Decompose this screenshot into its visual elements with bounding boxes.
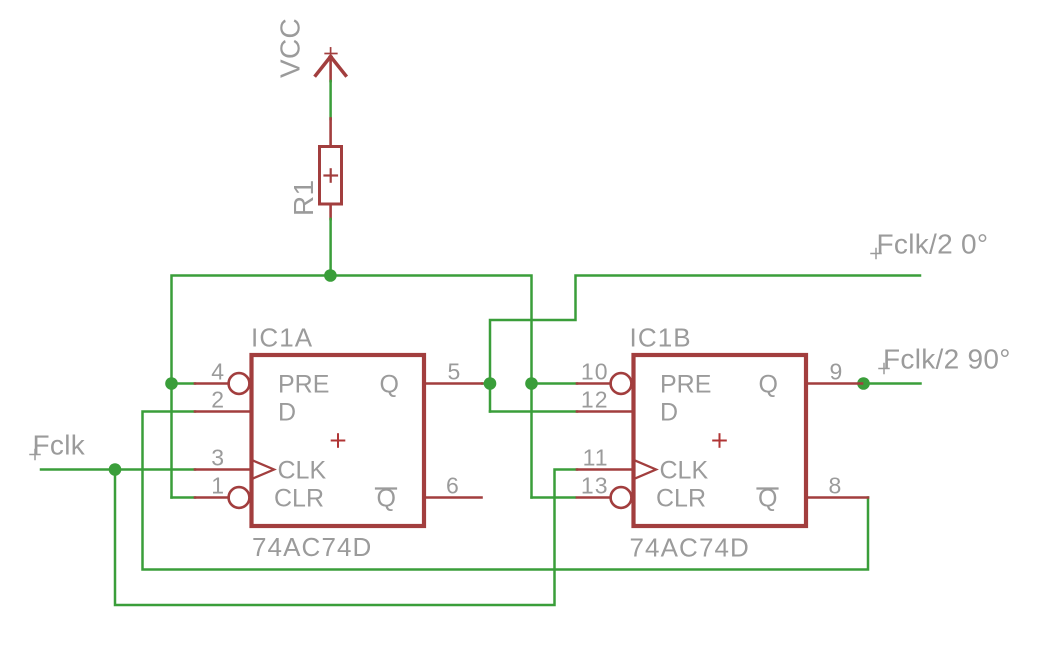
svg-text:PRE: PRE xyxy=(278,371,329,399)
svg-text:Q: Q xyxy=(759,371,778,399)
svg-text:Fclk/2 0°: Fclk/2 0° xyxy=(877,229,989,260)
origin cross IC1A xyxy=(332,434,345,447)
svg-text:11: 11 xyxy=(583,445,609,471)
svg-text:D: D xyxy=(660,399,678,427)
svg-text:13: 13 xyxy=(581,473,609,499)
pin 1 CLR of IC1A (inverting bubble) xyxy=(195,496,229,499)
junction rail-R1 xyxy=(324,269,337,282)
svg-text:4: 4 xyxy=(211,359,225,385)
junction Fclk xyxy=(109,463,122,476)
svg-text:CLK: CLK xyxy=(278,457,327,485)
wire NQ2 feedback to D1 xyxy=(143,412,869,570)
wire rail to pin1 xyxy=(172,496,196,499)
svg-text:IC1A: IC1A xyxy=(251,323,313,353)
wire rail to pin10 xyxy=(532,382,578,385)
svg-text:CLK: CLK xyxy=(660,457,709,485)
wire rail to pin13 xyxy=(532,496,576,499)
svg-text:R1: R1 xyxy=(288,180,319,216)
wire VCC to R1 xyxy=(329,81,332,119)
svg-text:CLR: CLR xyxy=(274,485,324,513)
IC flip-flop IC1B body xyxy=(634,355,807,526)
svg-text:12: 12 xyxy=(581,387,609,413)
svg-text:2: 2 xyxy=(211,387,225,413)
svg-text:6: 6 xyxy=(446,473,459,499)
wire Q2 output 90deg xyxy=(862,382,921,385)
pin 2 D of IC1A xyxy=(195,410,252,413)
pin 13 CLR of IC1B (inverting bubble) xyxy=(577,496,611,499)
overline of Qbar IC1B xyxy=(758,487,778,489)
pin 12 D of IC1B xyxy=(577,410,634,413)
pin 8 Qbar of IC1B xyxy=(806,496,868,499)
svg-text:Q: Q xyxy=(380,371,399,399)
junction Q2 xyxy=(857,377,870,390)
svg-text:8: 8 xyxy=(829,473,842,499)
pin 5 Q of IC1A xyxy=(424,382,482,385)
pin 3 CLK of IC1A (clock wedge) xyxy=(195,468,252,471)
supply symbol VCC xyxy=(316,48,346,81)
svg-text:CLR: CLR xyxy=(656,485,706,513)
svg-text:Fclk: Fclk xyxy=(33,430,86,461)
IC flip-flop IC1A body xyxy=(252,355,425,526)
svg-text:10: 10 xyxy=(581,359,609,385)
svg-text:1: 1 xyxy=(211,473,225,499)
pin 9 Q of IC1B xyxy=(806,382,862,385)
wire Q1 node to D2 and 0deg out xyxy=(482,382,490,385)
svg-text:IC1B: IC1B xyxy=(630,323,692,353)
svg-text:5: 5 xyxy=(448,359,461,385)
pin 6 Qbar of IC1A xyxy=(424,496,482,499)
pin 11 CLK of IC1B (clock wedge) xyxy=(577,468,634,471)
wire Q1 to pin12 xyxy=(490,410,577,413)
junction rail-pin4 xyxy=(165,377,178,390)
svg-text:74AC74D: 74AC74D xyxy=(630,533,750,563)
wire R1 to rail xyxy=(329,219,332,276)
wire Fclk input xyxy=(41,468,195,471)
label origin cross Fclk xyxy=(30,450,40,460)
label origin cross 0deg xyxy=(871,249,881,259)
label origin cross 90deg xyxy=(879,364,889,374)
origin cross IC1B xyxy=(713,434,726,447)
svg-text:PRE: PRE xyxy=(660,371,711,399)
wire preset/clear rail horizontal xyxy=(172,276,532,498)
svg-text:Fclk/2 90°: Fclk/2 90° xyxy=(883,344,1011,375)
wire Fclk to IC1B clock xyxy=(115,470,577,606)
pin 10 PRE of IC1B (inverting bubble) xyxy=(577,382,611,385)
svg-text:74AC74D: 74AC74D xyxy=(252,532,372,562)
junction rail-pin10 xyxy=(525,377,538,390)
svg-text:D: D xyxy=(278,399,296,427)
svg-text:3: 3 xyxy=(211,445,225,471)
svg-text:9: 9 xyxy=(830,359,843,385)
wire rail to pin4 xyxy=(172,382,196,385)
junction Q1 xyxy=(484,377,497,390)
resistor R1 xyxy=(320,119,342,220)
overline of Qbar IC1A xyxy=(376,487,396,489)
pin 4 PRE of IC1A (inverting bubble) xyxy=(195,382,229,385)
svg-text:VCC: VCC xyxy=(275,18,306,78)
